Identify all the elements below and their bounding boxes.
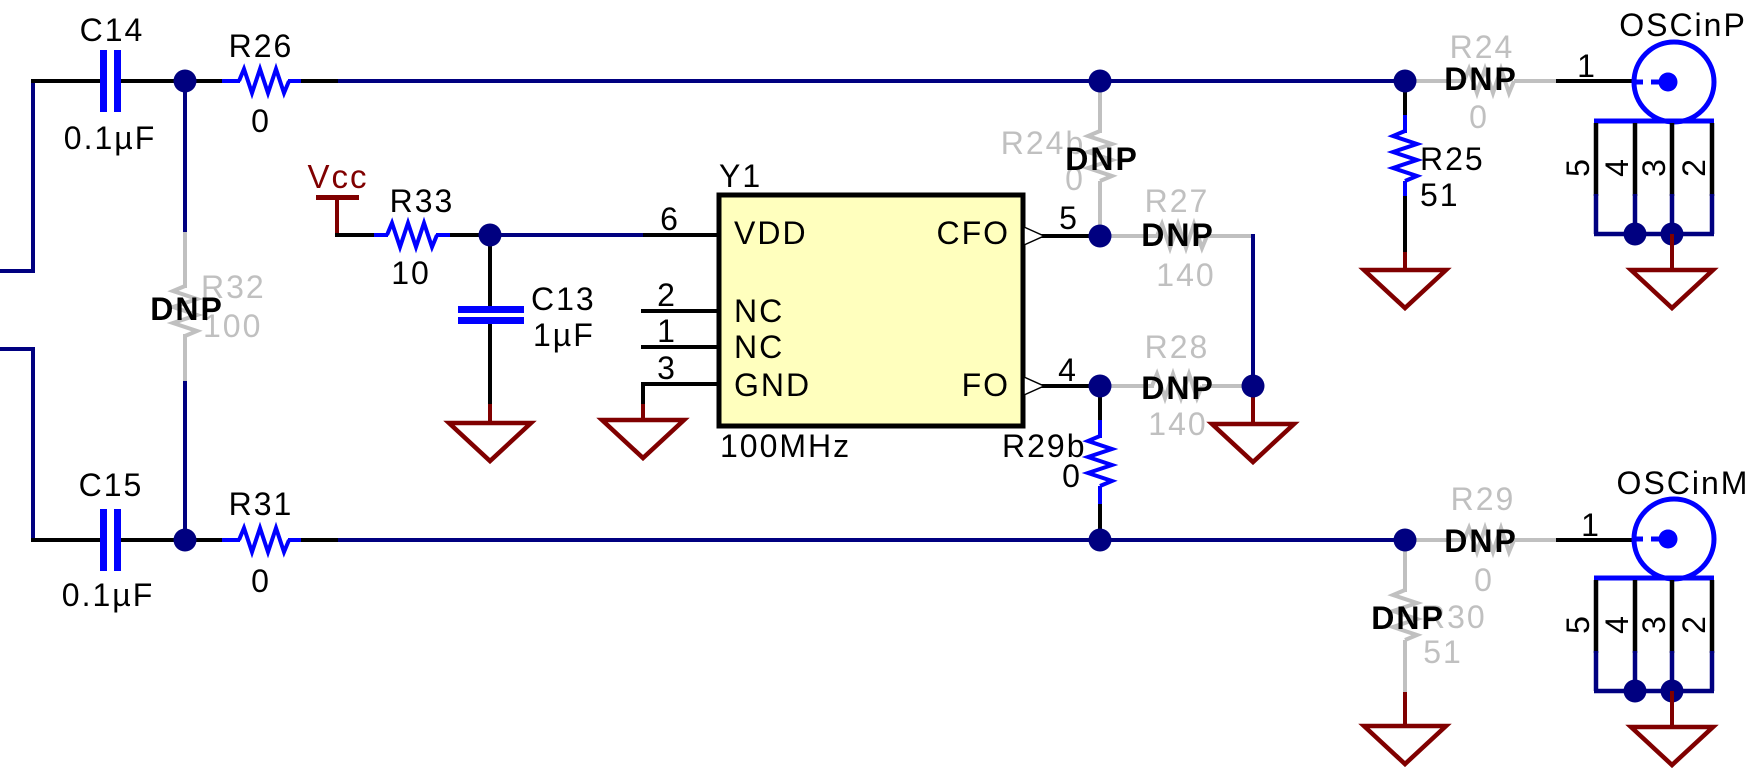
ground below pin 3 [602, 404, 684, 458]
svg-text:DNP: DNP [1444, 61, 1518, 97]
svg-text:4: 4 [1599, 157, 1635, 177]
capacitor C15 [100, 509, 121, 571]
svg-text:0: 0 [251, 103, 271, 139]
junction node top-right [1394, 70, 1417, 93]
resistor R26 [222, 69, 301, 93]
junction node pin5 [1089, 225, 1112, 248]
junction node A [174, 70, 197, 93]
ground below connector [1670, 234, 1674, 270]
junction node R28 gnd [1242, 375, 1265, 398]
wire pin1 lead OSCinM [1556, 538, 1633, 542]
svg-text:5: 5 [1059, 200, 1079, 236]
wire shield bottom bar [1594, 232, 1714, 237]
svg-text:2: 2 [657, 277, 677, 313]
resistor R24 (DNP) horizontal top [1405, 69, 1556, 93]
junction node B [479, 224, 502, 247]
connector OSCinP coax circle [1634, 42, 1714, 122]
svg-text:1µF: 1µF [533, 317, 595, 353]
wire pin 2 navy [1710, 651, 1715, 691]
resistor R25 vertical [1393, 81, 1417, 254]
wire pin 5 CFO lead [1023, 234, 1100, 238]
svg-text:GND: GND [734, 367, 811, 403]
pin line 2 [1710, 580, 1715, 653]
wire pin 4 navy [1633, 651, 1638, 691]
pin 1 dashed center [1634, 537, 1660, 542]
wire Vcc to R33 [335, 233, 376, 237]
junction dot [1661, 680, 1684, 703]
pin line 3 [1670, 580, 1675, 653]
svg-text:2: 2 [1676, 157, 1712, 177]
wire pin1 lead OSCinP [1556, 79, 1634, 83]
resistor R28 (DNP) horizontal [1100, 374, 1253, 398]
wire pin 4 navy [1633, 194, 1638, 234]
svg-text:R33: R33 [390, 183, 455, 219]
svg-text:100MHz: 100MHz [720, 428, 851, 464]
connector OSCinM shield bar top [1594, 576, 1714, 581]
junction node bottom-mid [1089, 529, 1112, 552]
svg-text:0: 0 [1474, 562, 1494, 598]
svg-text:51: 51 [1423, 634, 1463, 670]
resistor R32 (DNP) vertical [173, 81, 197, 540]
wire R27 to R28 vertical navy [1251, 234, 1255, 386]
junction dot [1624, 680, 1647, 703]
wire shield bottom bar [1594, 689, 1714, 694]
wire pin 3 navy [1670, 194, 1675, 234]
svg-text:0: 0 [1469, 99, 1489, 135]
svg-text:DNP: DNP [1371, 600, 1445, 636]
svg-text:DNP: DNP [1141, 370, 1215, 406]
svg-text:5: 5 [1560, 614, 1596, 634]
svg-text:0: 0 [251, 563, 271, 599]
ground below C13 [449, 404, 531, 461]
pin line 5 [1594, 123, 1599, 196]
connector OSCinP shield bar top [1594, 119, 1714, 124]
oscillator U1 Y1 body [719, 195, 1023, 426]
svg-text:R29: R29 [1451, 481, 1516, 517]
wire R26 right lead black [299, 79, 338, 83]
wire pin 1 lead [641, 345, 719, 349]
resistor R30 (DNP) vertical [1393, 540, 1417, 694]
svg-text:OSCinM: OSCinM [1617, 465, 1750, 501]
junction node C [174, 529, 197, 552]
wire pin 3 lead [643, 384, 719, 406]
pin 4 output marker [1024, 377, 1044, 395]
svg-text:VDD: VDD [734, 215, 808, 251]
svg-text:DNP: DNP [1444, 523, 1518, 559]
pin line 4 [1633, 123, 1638, 196]
wire pin 2 lead [641, 309, 719, 313]
svg-text:R27: R27 [1145, 183, 1210, 219]
svg-text:3: 3 [657, 350, 677, 386]
svg-text:R28: R28 [1145, 329, 1210, 365]
wire C14 to node A [121, 79, 222, 83]
svg-text:NC: NC [734, 329, 784, 365]
wire top rail black lead into C14 [31, 79, 100, 83]
svg-text:FO: FO [962, 367, 1010, 403]
svg-text:R24: R24 [1450, 29, 1515, 65]
svg-text:4: 4 [1599, 614, 1635, 634]
wire pin 3 navy [1670, 651, 1675, 691]
wire pin 4 FO lead [1023, 384, 1100, 388]
resistor R24b (DNP) vertical [1088, 81, 1112, 236]
svg-text:NC: NC [734, 293, 784, 329]
wire bottom rail black lead into C15 [31, 538, 100, 542]
wire pin 5 navy [1594, 651, 1599, 691]
svg-text:C13: C13 [531, 281, 596, 317]
wire R31 right lead black [299, 538, 338, 542]
svg-text:R31: R31 [229, 486, 294, 522]
connector OSCinM coax circle [1634, 499, 1714, 579]
power port Vcc [316, 195, 359, 235]
wire C15 to node C [121, 538, 222, 542]
svg-text:DNP: DNP [1141, 217, 1215, 253]
svg-text:DNP: DNP [1065, 141, 1139, 177]
pin line 5 [1594, 580, 1599, 653]
svg-text:2: 2 [1676, 614, 1712, 634]
junction dot [1661, 223, 1684, 246]
svg-text:0.1µF: 0.1µF [62, 577, 154, 613]
junction node top-mid [1089, 70, 1112, 93]
resistor R29b vertical [1088, 386, 1112, 540]
svg-text:R26: R26 [229, 28, 294, 64]
svg-text:DNP: DNP [150, 291, 224, 327]
resistor R27 (DNP) horizontal [1100, 224, 1253, 248]
junction dot [1624, 223, 1647, 246]
svg-text:4: 4 [1058, 352, 1078, 388]
wire top rail main navy [336, 79, 1406, 83]
ground below R25 [1364, 252, 1446, 308]
pin line 2 [1710, 123, 1715, 196]
wire left bottom stub [0, 349, 33, 540]
resistor R33 [374, 223, 452, 247]
wire left top stub [0, 81, 33, 271]
svg-text:140: 140 [1156, 257, 1215, 293]
ground below R30 [1364, 692, 1446, 764]
capacitor C13 [458, 235, 524, 406]
junction node pin4 [1089, 375, 1112, 398]
svg-text:R25: R25 [1420, 141, 1485, 177]
resistor R29 (DNP) horizontal bottom [1405, 528, 1556, 552]
pin line 4 [1633, 580, 1638, 653]
pin 1 dashed center [1634, 80, 1660, 85]
ground below R28 node [1212, 390, 1294, 462]
svg-text:C14: C14 [80, 12, 145, 48]
svg-text:6: 6 [660, 201, 680, 237]
capacitor C14 [100, 50, 121, 112]
wire R33 to node B [450, 233, 490, 237]
svg-text:1: 1 [657, 313, 677, 349]
svg-text:0.1µF: 0.1µF [64, 120, 156, 156]
svg-text:0: 0 [1062, 458, 1082, 494]
svg-text:C15: C15 [79, 467, 144, 503]
svg-text:Vcc: Vcc [307, 158, 368, 195]
ground below connector [1670, 691, 1674, 727]
svg-text:1: 1 [1581, 507, 1601, 543]
pin line 3 [1670, 123, 1675, 196]
svg-text:140: 140 [1148, 406, 1207, 442]
wire pin 2 navy [1710, 194, 1715, 234]
wire pin 6 lead [643, 233, 721, 237]
pin 5 output marker [1024, 227, 1044, 245]
svg-text:OSCinP: OSCinP [1619, 7, 1747, 43]
svg-text:3: 3 [1636, 614, 1672, 634]
svg-text:1: 1 [1577, 48, 1597, 84]
wire node B to pin6 navy [490, 233, 645, 237]
svg-text:5: 5 [1560, 157, 1596, 177]
svg-text:CFO: CFO [936, 215, 1010, 251]
svg-text:Y1: Y1 [719, 158, 762, 194]
resistor R31 [222, 528, 301, 552]
svg-text:51: 51 [1420, 177, 1460, 213]
junction node bottom-right [1394, 529, 1417, 552]
wire bottom rail main navy [336, 538, 1406, 542]
wire pin 5 navy [1594, 194, 1599, 234]
svg-text:10: 10 [391, 255, 431, 291]
svg-text:3: 3 [1636, 157, 1672, 177]
